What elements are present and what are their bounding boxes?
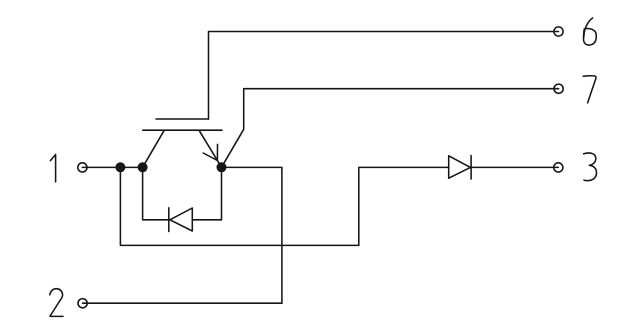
terminal circle 1 [78, 163, 87, 172]
wire diode D2 cathode to terminal 3 [471, 166, 558, 168]
terminal circle 6 [554, 27, 563, 36]
terminal circle 7 [554, 84, 563, 93]
wire terminal 1 to node C [82, 166, 142, 168]
wire gate lead to terminal 6 [209, 32, 559, 120]
pin label 3 [584, 153, 597, 181]
wire node C2 down to diode D1 cathode [143, 167, 169, 220]
diode D1 triangle [170, 208, 192, 231]
junction dot node C2 [138, 162, 148, 172]
wire terminal 2 [83, 302, 282, 304]
transistor Q1 collector leg [143, 131, 164, 168]
pin label 7 [583, 76, 596, 103]
transistor Q1 emitter arrowhead [203, 144, 217, 160]
terminal circle 3 [554, 163, 563, 172]
pin label 6 [584, 18, 593, 37]
terminal circle 2 [78, 299, 87, 308]
wire auxiliary emitter to terminal 7 [222, 89, 559, 168]
pin label 2 [50, 289, 63, 317]
diode D2 triangle [449, 156, 471, 178]
transistor Q1 body bar [143, 129, 222, 131]
transistor Q1 gate bar [156, 118, 209, 120]
diode D2 cathode bar [470, 156, 472, 180]
wire node E to terminal 2 drop [222, 167, 282, 303]
junction dot node E [217, 162, 227, 172]
wire diode D1 anode to node E [192, 167, 221, 220]
pin label 1 [50, 155, 55, 182]
wire node C1 down and across to diode D2 anode [120, 167, 448, 245]
transistor Q1 emitter leg [199, 131, 221, 168]
diode D1 cathode bar [168, 208, 170, 232]
junction dot node C1 [115, 162, 125, 172]
